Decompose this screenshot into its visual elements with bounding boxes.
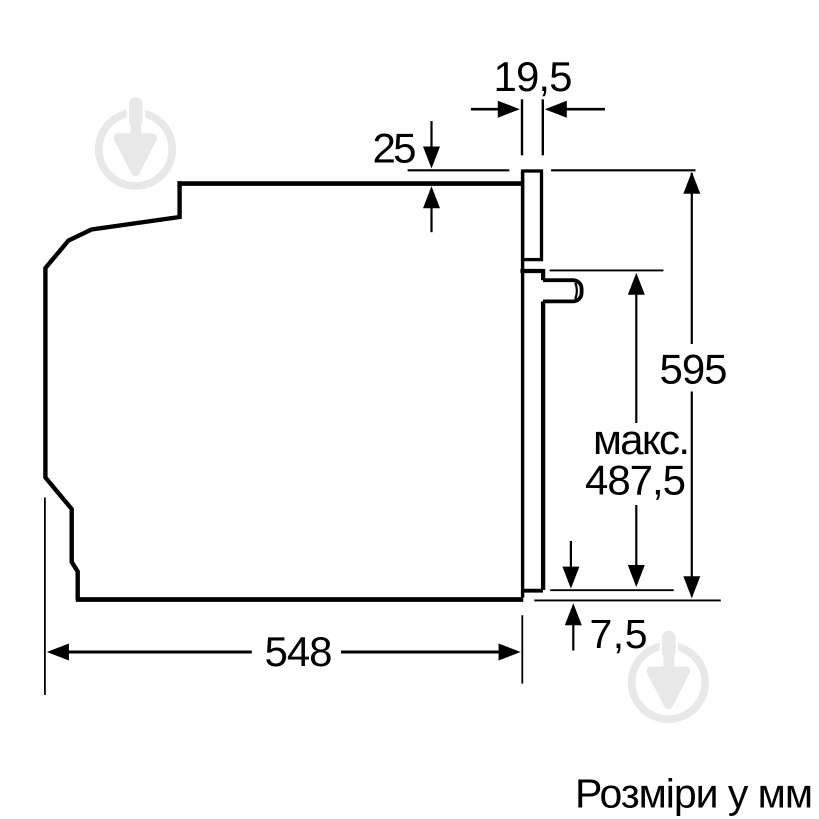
door left edge (full height) [521,171,524,598]
dim 487,5 vertical line upper [635,292,637,423]
dim 487,5 vertical line lower [635,505,637,568]
oven body outline left/back profile [45,181,179,599]
dim 595 up arrowhead [683,172,700,194]
dim 7,5 lower arrow line [572,622,574,651]
dim 25 up arrowhead [423,186,440,208]
dim 548 left arrowhead [47,644,69,661]
door handle [543,280,582,301]
door upper front panel [523,171,542,260]
dim 595 down arrowhead [683,576,700,598]
dim 19,5 right arrow line [565,108,605,111]
watermark logo top-left [99,104,173,186]
svg-text:19,5: 19,5 [494,53,573,100]
dim 7,5 down arrowhead [562,567,579,589]
door right lower edge [541,301,545,590]
dim 19,5 left arrow line [471,108,501,111]
dim 19,5 left arrowhead [498,101,520,118]
dim 487,5 up arrowhead [628,273,645,295]
ref line top right segment (595 dim) [551,169,695,171]
svg-text:7,5: 7,5 [590,611,648,657]
oven bottom line [76,597,523,602]
oven top line [178,181,522,186]
dim 25 down arrowhead [423,147,440,169]
dim 548 right line [341,651,502,654]
svg-text:595: 595 [660,346,728,393]
dim 595 vertical line lower [691,392,693,597]
svg-text:Розміри у мм: Розміри у мм [575,771,813,817]
ref line handle top (487,5 dim) [550,269,664,271]
extension line 19,5 left [521,99,523,155]
svg-text:25: 25 [373,125,417,172]
door bottom edge [521,589,543,593]
extension line 19,5 right [542,99,544,155]
dim 548 right arrowhead [499,644,521,661]
svg-text:487,5: 487,5 [585,457,686,504]
extension line 548 right [521,615,523,683]
dim 25 lower arrow line [430,205,432,232]
dim 595 vertical line upper [691,173,693,344]
dim 7,5 upper arrow line [570,541,572,571]
svg-text:548: 548 [265,628,333,675]
watermark logo bottom-right [632,638,706,720]
door right lower edge upper segment [541,269,545,280]
handle inner cap arc [575,283,577,299]
dim 25 upper arrow line [430,121,432,149]
ref line door top (25 dim) [408,169,510,171]
floor ref line [534,599,721,601]
ref line lower (487,5 bottom) [550,589,674,591]
dim 19,5 right arrowhead [545,101,567,118]
dim 548 left line [66,651,252,654]
door seam line [520,269,542,273]
dim 7,5 up arrowhead [565,603,582,625]
extension line 548 left [44,498,46,695]
dim 487,5 down arrowhead [628,565,645,587]
